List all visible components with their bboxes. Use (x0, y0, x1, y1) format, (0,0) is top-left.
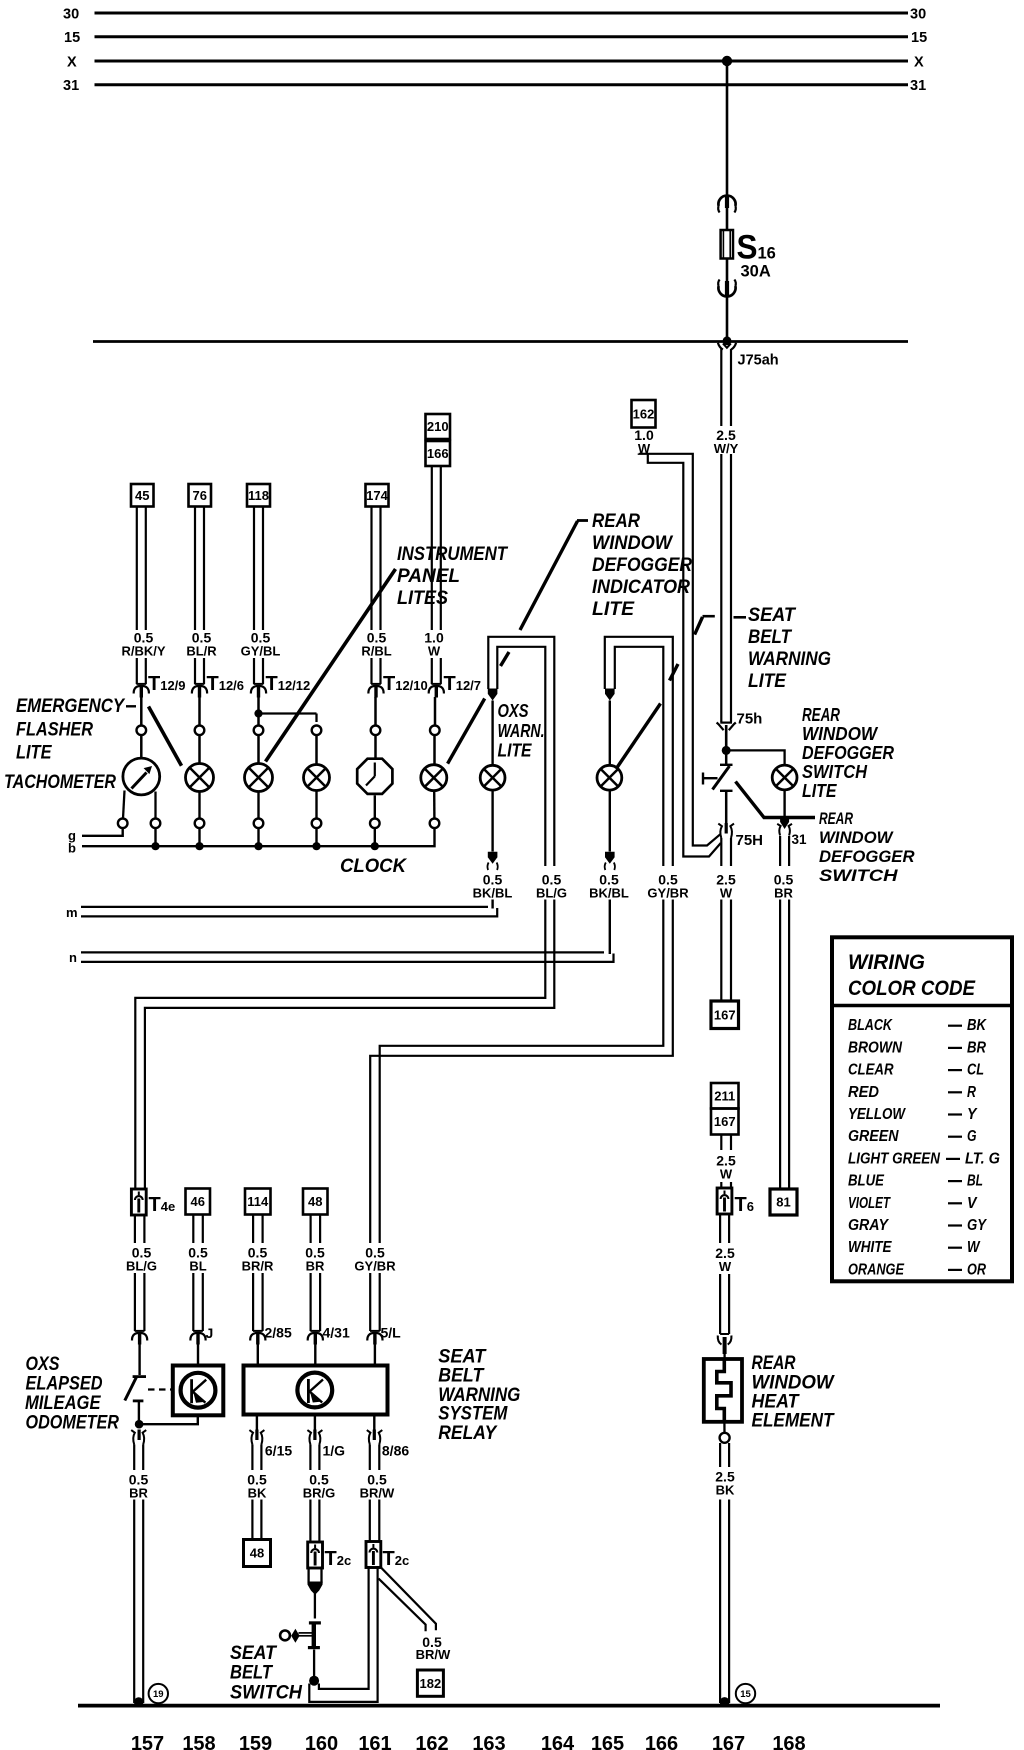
wire 5/L to relay (374, 1344, 376, 1366)
svg-text:BROWN: BROWN (848, 1039, 903, 1056)
svg-text:GREEN: GREEN (848, 1128, 899, 1145)
bus g (82, 828, 123, 836)
svg-text:COLOR CODE: COLOR CODE (848, 977, 976, 1000)
terminal circle below panel lamp 2 (312, 819, 322, 829)
svg-text:48: 48 (308, 1194, 322, 1209)
wire J to relay K10 (197, 1344, 199, 1366)
svg-text:EMERGENCY: EMERGENCY (16, 696, 126, 717)
svg-text:167: 167 (712, 1733, 745, 1750)
bus n (81, 951, 604, 953)
wire into seat belt lamp (609, 701, 611, 766)
svg-text:T12/7: T12/7 (444, 673, 482, 695)
svg-text:19: 19 (153, 1689, 164, 1700)
connector T12/6 (195, 683, 205, 685)
svg-text:BR/R: BR/R (242, 1259, 274, 1274)
svg-text:T6: T6 (735, 1194, 754, 1216)
wire 0.5 BK upper (251, 1445, 253, 1471)
svg-text:158: 158 (182, 1733, 215, 1750)
svg-text:SEAT: SEAT (748, 605, 796, 626)
svg-text:166: 166 (427, 446, 449, 461)
svg-text:GY/BR: GY/BR (647, 886, 689, 901)
box 162 (632, 400, 656, 428)
svg-text:REAR: REAR (752, 1353, 796, 1374)
wire 0.5 R/BL lower (370, 658, 372, 684)
wire 0.5 BR upper (779, 836, 781, 866)
wire 0.5 R/BL upper (370, 507, 372, 631)
wire to defogger switch lamp (726, 750, 784, 764)
wire from bus X to fuse S16 (726, 61, 729, 230)
wire 0.5 BL/R upper (194, 507, 196, 631)
svg-text:118: 118 (248, 488, 269, 503)
wire OXS lamp to bus m (491, 900, 493, 909)
connector below OXS warn lamp (488, 852, 498, 864)
wire T4e col lower (134, 1273, 136, 1331)
svg-text:15: 15 (740, 1689, 751, 1700)
svg-text:REAR: REAR (819, 809, 854, 828)
svg-text:TACHOMETER: TACHOMETER (4, 772, 116, 793)
fuse S16 (721, 230, 733, 259)
wire 0.5 BL/G below T4e (134, 1215, 136, 1243)
leader to emergency flasher lite (149, 707, 182, 766)
wire clock to bus b (374, 828, 376, 845)
bus b (82, 828, 435, 846)
svg-text:T12/6: T12/6 (207, 673, 245, 695)
svg-text:T4e: T4e (149, 1194, 176, 1216)
svg-text:SWITCH: SWITCH (819, 866, 898, 885)
connector bullet below T2c a (307, 1567, 309, 1584)
wire relay K10 to odometer (139, 1415, 198, 1424)
wire 0.5 BR/G upper (309, 1445, 311, 1471)
bus m (81, 906, 488, 908)
svg-text:165: 165 (591, 1733, 624, 1750)
wire to clock (374, 697, 377, 725)
svg-text:PANEL: PANEL (397, 566, 460, 587)
svg-text:4/31: 4/31 (323, 1325, 350, 1341)
svg-text:T12/9: T12/9 (148, 673, 186, 695)
connector above heat element (720, 1333, 729, 1335)
wire 48 col lower (310, 1273, 312, 1331)
svg-text:LITE: LITE (748, 671, 787, 692)
wire 2.5 W below T6 (719, 1215, 721, 1243)
wire 0.5 BR/W to T2c b (369, 1500, 371, 1542)
svg-text:ELEMENT: ELEMENT (752, 1411, 835, 1432)
svg-text:211: 211 (714, 1088, 735, 1103)
wire 0.5 BL/G routing (135, 900, 545, 1190)
wire 2.5 W upper (720, 838, 722, 866)
ground rail (78, 1704, 940, 1708)
svg-text:LITE: LITE (16, 743, 53, 764)
terminal circle above panel lamp 1 (254, 726, 264, 736)
svg-text:BR: BR (774, 886, 793, 901)
dashed link odometer to relay (148, 1388, 172, 1390)
box 211 (711, 1083, 739, 1109)
svg-text:RELAY: RELAY (438, 1423, 498, 1444)
box 174 (366, 484, 389, 507)
svg-text:LT. G: LT. G (965, 1150, 1000, 1167)
svg-text:WHITE: WHITE (848, 1239, 892, 1256)
svg-text:157: 157 (131, 1733, 164, 1750)
svg-text:GRAY: GRAY (848, 1217, 890, 1234)
svg-text:164: 164 (541, 1733, 575, 1750)
rear window defogger indicator lamp (421, 765, 447, 791)
wire 1.0 W upper (431, 466, 433, 630)
svg-text:31: 31 (63, 78, 79, 94)
wire 0.5 GY/BL lower (253, 658, 255, 684)
wire into defogger indicator lamp (433, 735, 436, 765)
wire below defogger indicator lamp (433, 791, 436, 819)
svg-text:WARNING: WARNING (748, 649, 831, 670)
connector below fuse (718, 286, 735, 296)
wire 2.5 W to T6 (720, 1182, 722, 1188)
svg-text:WINDOW: WINDOW (819, 828, 894, 847)
svg-text:J75ah: J75ah (738, 353, 779, 369)
branch wire to panel lamp 2 (259, 712, 317, 714)
svg-text:W: W (720, 1167, 733, 1182)
svg-text:BR/W: BR/W (360, 1486, 395, 1501)
wire odometer feed (138, 1344, 140, 1375)
wire 2.5 BK to ground rail (719, 1500, 721, 1704)
svg-text:LITE: LITE (498, 741, 533, 761)
svg-text:BK/BL: BK/BL (589, 886, 629, 901)
connector T2c a (308, 1542, 323, 1568)
svg-text:SEAT: SEAT (230, 1643, 277, 1664)
bus line 30 (95, 12, 909, 15)
connector T12/12 (254, 683, 264, 685)
connector T12/10 (371, 683, 381, 685)
svg-text:REAR: REAR (802, 705, 840, 725)
svg-text:BELT: BELT (438, 1366, 484, 1387)
svg-text:30: 30 (63, 6, 79, 22)
wire seat belt switch to relay 8/86 (319, 1566, 369, 1689)
svg-text:S16: S16 (737, 229, 776, 267)
svg-text:174: 174 (366, 488, 388, 503)
svg-text:DEFOGGER: DEFOGGER (802, 743, 894, 763)
wire 2.5 W/Y upper (720, 349, 722, 426)
svg-text:INDICATOR: INDICATOR (592, 577, 690, 598)
junction on bus b col3b (312, 842, 320, 850)
node on bus X (722, 56, 732, 66)
seat belt warning lamp (597, 765, 622, 790)
junction J75ah (723, 336, 732, 345)
svg-text:5/L: 5/L (381, 1325, 402, 1341)
svg-text:CL: CL (967, 1062, 984, 1079)
wire 0.5 BR below 48 (310, 1215, 312, 1244)
svg-text:MILEAGE: MILEAGE (25, 1393, 102, 1414)
svg-text:168: 168 (772, 1733, 805, 1750)
connector T12/7 (431, 683, 441, 685)
svg-text:R: R (967, 1084, 977, 1101)
svg-text:HEAT: HEAT (752, 1392, 800, 1413)
svg-text:15: 15 (911, 30, 927, 46)
box 182 (417, 1670, 443, 1696)
wire below defogger switch lamp (783, 790, 785, 816)
wire below flasher lamp (198, 792, 200, 819)
svg-text:2/85: 2/85 (265, 1325, 292, 1341)
wire below OXS warn lamp (491, 790, 493, 852)
wire 2.5 W/Y lower (720, 454, 722, 722)
connector T2c b (366, 1542, 381, 1568)
svg-text:RED: RED (848, 1084, 879, 1101)
wire below seat belt switch (313, 1650, 315, 1678)
wire 46 col lower (192, 1273, 194, 1331)
connector 31 (780, 816, 789, 829)
junction on bus b col4 (371, 842, 379, 850)
svg-text:BR: BR (967, 1039, 987, 1056)
svg-text:CLEAR: CLEAR (848, 1062, 894, 1079)
wire 0.5 BR odometer upper (133, 1445, 135, 1471)
wire 2.5 W below box 167b (720, 1135, 722, 1151)
svg-text:167: 167 (714, 1007, 736, 1022)
box 45 (131, 484, 154, 507)
connector above fuse (718, 196, 735, 206)
svg-text:FLASHER: FLASHER (16, 720, 93, 741)
svg-text:167: 167 (714, 1114, 736, 1129)
svg-text:182: 182 (420, 1676, 442, 1691)
svg-text:m: m (66, 905, 78, 920)
svg-text:T2c: T2c (325, 1548, 352, 1570)
wire 2/85 to relay (257, 1344, 259, 1366)
OXS warn lamp (480, 765, 505, 790)
svg-text:W/Y: W/Y (714, 441, 739, 456)
svg-text:G: G (967, 1128, 977, 1145)
svg-text:WINDOW: WINDOW (752, 1373, 836, 1394)
leader to seat belt warning lamp (734, 616, 747, 619)
box 210 (426, 414, 451, 439)
rear window heat element (704, 1359, 742, 1422)
svg-text:166: 166 (645, 1733, 678, 1750)
instrument panel lamp 1 (245, 764, 273, 792)
connector T4e (131, 1189, 146, 1215)
connector 6/15 (255, 1430, 258, 1441)
svg-text:VIOLET: VIOLET (848, 1195, 891, 1212)
svg-text:ELAPSED: ELAPSED (26, 1374, 103, 1395)
svg-text:DEFOGGER: DEFOGGER (819, 847, 915, 866)
box 114 (245, 1189, 271, 1215)
svg-text:INSTRUMENT: INSTRUMENT (397, 544, 508, 565)
wire 0.5 BR/W upper (369, 1445, 371, 1471)
clock (357, 759, 392, 794)
wire seat belt lamp to bus n (609, 900, 611, 955)
svg-text:GY/BL: GY/BL (241, 644, 281, 659)
tachometer V1 (123, 758, 160, 795)
wire 0.5 BL/R lower (194, 658, 196, 684)
wire GY/BR col lower (369, 1273, 371, 1331)
svg-text:WARN.: WARN. (498, 721, 545, 741)
svg-text:SWITCH: SWITCH (802, 762, 868, 782)
wire 0.5 BR to box 81 (779, 900, 781, 1190)
leader to instrument panel lamps (266, 569, 396, 762)
wire from fuse to J75ah rail (726, 259, 729, 341)
svg-text:W: W (720, 886, 733, 901)
wire 0.5 GY/BR routing (380, 900, 664, 1244)
svg-text:75H: 75H (736, 832, 764, 849)
svg-text:81: 81 (776, 1195, 790, 1210)
svg-text:DEFOGGER: DEFOGGER (592, 555, 692, 576)
seat belt warning relay box (244, 1366, 388, 1415)
ground marker 15 (736, 1684, 755, 1703)
connector above OXS warn lamp (488, 689, 498, 701)
svg-text:YELLOW: YELLOW (848, 1106, 906, 1123)
svg-text:30: 30 (910, 6, 926, 22)
wire to tachometer (140, 697, 143, 725)
wire relay pin 1/G (314, 1415, 316, 1431)
svg-text:161: 161 (358, 1733, 391, 1750)
wire branch to track 182 (381, 1567, 436, 1630)
wire 4/31 to relay (314, 1344, 316, 1366)
svg-text:LITE: LITE (592, 599, 635, 620)
svg-text:159: 159 (239, 1733, 272, 1750)
wiring color code box (832, 937, 1012, 1281)
rail J75ah (93, 340, 908, 343)
svg-text:163: 163 (472, 1733, 505, 1750)
box 166 (426, 441, 451, 466)
svg-text:162: 162 (415, 1733, 448, 1750)
terminal circle below heat element (723, 1422, 725, 1433)
svg-text:BR: BR (129, 1486, 148, 1501)
wire below panel lamp 1 (257, 792, 259, 819)
connector below seat belt lamp (605, 852, 615, 864)
junction odometer output (135, 1420, 144, 1429)
wire into clock (374, 735, 377, 758)
svg-text:X: X (914, 55, 924, 71)
svg-text:160: 160 (305, 1733, 338, 1750)
box 167 a (711, 1001, 739, 1029)
wire 2.5 BK upper (719, 1443, 721, 1467)
box 118 (247, 484, 270, 507)
rear window defogger switch lamp (772, 765, 797, 790)
svg-text:31: 31 (792, 832, 808, 847)
wire to panel lamp 1 (257, 697, 260, 725)
wire 0.5 BR/R below 114 (252, 1215, 254, 1244)
svg-text:8/86: 8/86 (382, 1443, 409, 1459)
svg-text:210: 210 (427, 419, 449, 434)
tachometer terminal circle right (151, 819, 161, 829)
connector 1/G (313, 1430, 316, 1441)
terminal circle below flasher lamp (195, 819, 205, 829)
svg-text:SWITCH: SWITCH (230, 1683, 303, 1704)
junction on ground rail left (134, 1697, 144, 1707)
wire flasher lamp to bus b (198, 828, 200, 845)
terminal circle above clock (371, 726, 381, 736)
svg-text:LITE: LITE (802, 781, 837, 801)
connector J (193, 1330, 203, 1332)
svg-text:J: J (206, 1325, 214, 1341)
svg-text:T12/12: T12/12 (266, 673, 311, 695)
svg-text:SYSTEM: SYSTEM (438, 1404, 508, 1425)
svg-text:BL/G: BL/G (536, 886, 567, 901)
svg-text:BK: BK (248, 1486, 267, 1501)
junction below seat belt switch (309, 1676, 319, 1686)
wire 0.5 R/BK/Y upper (136, 507, 138, 631)
terminal circle above flasher lamp (195, 726, 205, 736)
terminal circle above panel lamp 2 (312, 726, 322, 736)
svg-text:R/BK/Y: R/BK/Y (121, 644, 165, 659)
svg-text:GY/BR: GY/BR (354, 1259, 396, 1274)
connector 2/85 (253, 1330, 263, 1332)
svg-text:46: 46 (191, 1194, 205, 1209)
wire into OXS warn lamp (491, 701, 493, 766)
svg-text:BR/W: BR/W (416, 1647, 451, 1662)
svg-text:BL: BL (189, 1259, 206, 1274)
svg-text:BK: BK (967, 1017, 988, 1034)
svg-text:6/15: 6/15 (265, 1443, 292, 1459)
OXS odometer switch (133, 1375, 146, 1378)
wire below seat belt lamp (609, 790, 611, 852)
svg-text:W: W (719, 1259, 732, 1274)
wire into panel lamp 2 (315, 735, 318, 764)
svg-text:T2c: T2c (383, 1548, 410, 1570)
wire 0.5 BR/G to T2c (309, 1500, 311, 1543)
terminal circle above defogger indicator lamp (430, 726, 440, 736)
svg-text:R/BL: R/BL (361, 644, 391, 659)
svg-text:BL: BL (967, 1173, 983, 1190)
wire relay pin 8/86 (373, 1415, 375, 1431)
wire T2c to seat belt switch (314, 1592, 316, 1619)
terminal circle below defogger indicator lamp (430, 819, 440, 829)
svg-text:31: 31 (910, 78, 926, 94)
svg-text:BELT: BELT (748, 627, 792, 648)
seat belt switch (309, 1621, 321, 1624)
junction on panel lamp wire (254, 709, 262, 717)
svg-text:30A: 30A (741, 263, 771, 281)
wire 0.5 BK to box 48 (251, 1500, 253, 1540)
rear window defogger switch (725, 750, 728, 764)
box 46 (186, 1189, 211, 1215)
seat belt switch actuator (280, 1631, 290, 1641)
svg-text:BK/BL: BK/BL (473, 886, 513, 901)
connector above seat belt lamp (605, 689, 615, 701)
connector 5/L (370, 1330, 380, 1332)
svg-text:114: 114 (247, 1194, 269, 1209)
svg-text:WINDOW: WINDOW (592, 533, 674, 554)
svg-text:GY: GY (967, 1217, 987, 1234)
connector T12/9 (136, 683, 146, 685)
svg-text:1/G: 1/G (323, 1443, 346, 1459)
connector 4/31 (310, 1330, 320, 1332)
wire 2.5 W to heat element (719, 1274, 721, 1334)
svg-text:BK: BK (716, 1483, 735, 1498)
wire relay pin 6/15 (256, 1415, 258, 1431)
svg-text:OR: OR (967, 1261, 987, 1278)
svg-text:BLUE: BLUE (848, 1173, 885, 1190)
svg-text:76: 76 (193, 488, 207, 503)
wire 1.0 W from box 162 (639, 454, 721, 846)
leader to defogger indicator lamp (577, 519, 588, 522)
svg-text:X: X (67, 55, 77, 71)
bus line 15 (95, 35, 909, 38)
bus line 31 (95, 83, 909, 86)
svg-text:BL/R: BL/R (186, 644, 217, 659)
svg-text:BLACK: BLACK (848, 1017, 893, 1034)
wire below clock (374, 795, 376, 818)
box 48 a (303, 1189, 328, 1215)
wire into panel lamp 1 (257, 735, 260, 763)
svg-text:b: b (68, 841, 76, 856)
svg-text:T12/10: T12/10 (383, 673, 428, 695)
svg-text:WINDOW: WINDOW (802, 724, 879, 744)
svg-text:LIGHT GREEN: LIGHT GREEN (848, 1150, 941, 1167)
svg-text:W: W (967, 1239, 981, 1256)
connector 75h (720, 721, 732, 723)
svg-text:ORANGE: ORANGE (848, 1261, 905, 1278)
box 76 (189, 484, 212, 507)
leader to defogger switch (736, 782, 816, 818)
wire tach right terminal to bus b (154, 828, 156, 845)
wire 114 col lower (252, 1273, 254, 1331)
wire into tachometer (140, 735, 143, 759)
svg-text:V: V (967, 1195, 978, 1212)
wire 0.5 R/BK/Y lower (136, 658, 138, 684)
